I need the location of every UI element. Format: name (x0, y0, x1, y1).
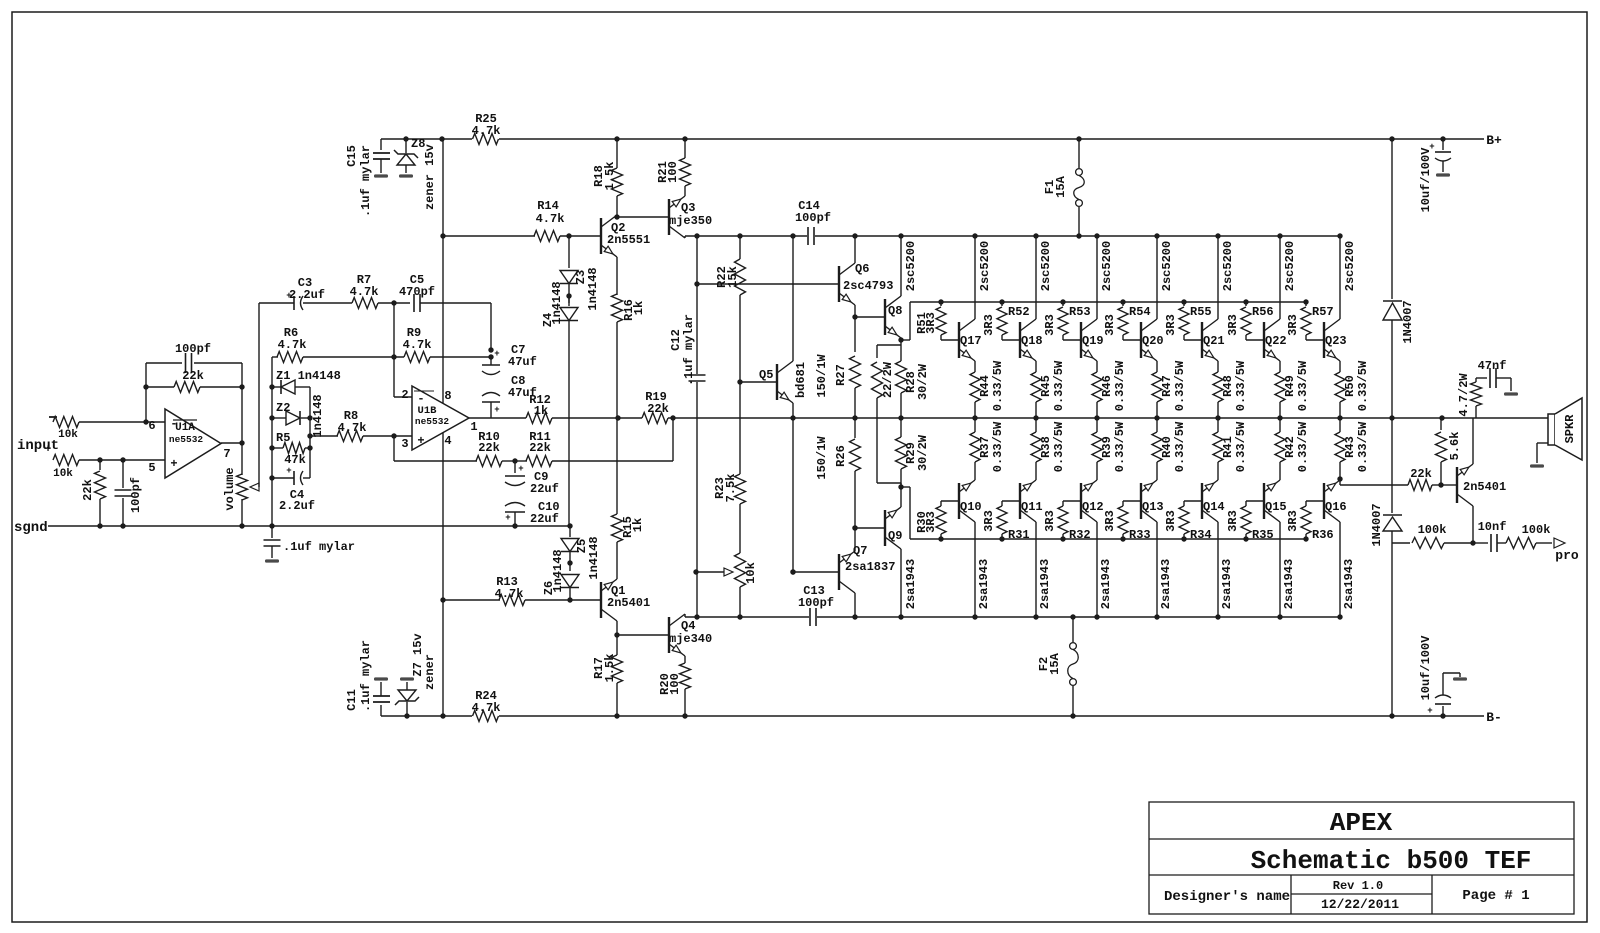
wire Q8 emitter to base rail (901, 339, 910, 341)
svg-text:3R3: 3R3 (1226, 510, 1240, 532)
wire Q6 collector (854, 236, 856, 263)
svg-text:.1uf mylar: .1uf mylar (359, 145, 373, 217)
diode Z3 1n4148 (560, 271, 578, 284)
resistor R7 (352, 298, 378, 309)
wire base rail top (910, 301, 1306, 303)
svg-text:R46: R46 (1100, 375, 1114, 397)
svg-text:R53: R53 (1069, 305, 1091, 319)
svg-text:volume: volume (223, 467, 237, 510)
svg-text:1n4148: 1n4148 (311, 394, 325, 437)
svg-text:-: - (417, 392, 424, 406)
svg-text:2.2uf: 2.2uf (289, 288, 325, 302)
wire supply column U1B pin4 (442, 433, 444, 716)
svg-text:+: + (286, 466, 291, 476)
resistor R9 (404, 352, 430, 363)
resistor R27 150/1W (854, 317, 856, 352)
svg-text:1k: 1k (631, 518, 645, 532)
svg-text:2sc5200: 2sc5200 (1160, 241, 1174, 291)
svg-text:.1uf mylar: .1uf mylar (359, 640, 373, 712)
diode Z5 1n4148 (569, 526, 571, 537)
svg-text:Q10: Q10 (960, 500, 982, 514)
svg-text:1k: 1k (534, 404, 548, 418)
svg-text:15v: 15v (423, 144, 437, 166)
svg-text:47k: 47k (284, 453, 306, 467)
svg-text:Z2: Z2 (276, 401, 290, 415)
svg-text:3R3: 3R3 (1043, 314, 1057, 336)
capacitor .1uf mylar sgnd (271, 526, 273, 538)
wire driver/collector rail top (685, 235, 807, 237)
svg-text:R14: R14 (537, 199, 559, 213)
svg-text:22/2W: 22/2W (881, 361, 895, 398)
svg-text:Q18: Q18 (1021, 334, 1043, 348)
svg-text:0.33/5W: 0.33/5W (1356, 360, 1370, 411)
svg-text:2.2uf: 2.2uf (279, 499, 315, 513)
svg-text:Q23: Q23 (1325, 334, 1347, 348)
resistor R5 47k (269, 445, 274, 450)
svg-text:2sa1943: 2sa1943 (1220, 559, 1234, 609)
svg-text:B+: B+ (1486, 133, 1502, 148)
svg-text:2sa1943: 2sa1943 (1342, 559, 1356, 609)
svg-text:R52: R52 (1008, 305, 1030, 319)
resistor 10k minus input (49, 416, 57, 418)
capacitor C14 100pf (807, 227, 809, 245)
svg-text:R38: R38 (1039, 436, 1053, 458)
resistor R40 0.33/5W (1156, 418, 1158, 432)
capacitor 10uf/100V bottom (1440, 713, 1445, 718)
resistor R31 3R3 (1002, 500, 1020, 502)
resistor 5.6k (1439, 415, 1444, 420)
resistor R30 3R3 (941, 500, 959, 502)
svg-text:R36: R36 (1312, 528, 1334, 542)
zener Z7 (404, 713, 409, 718)
svg-text:R50: R50 (1343, 375, 1357, 397)
svg-text:Z1 1n4148: Z1 1n4148 (276, 369, 341, 383)
svg-text:+: + (494, 349, 499, 359)
svg-text:0.33/5W: 0.33/5W (1052, 421, 1066, 472)
wire Q2 collector (616, 215, 618, 217)
svg-text:1n4148: 1n4148 (551, 549, 565, 592)
svg-text:0.33/5W: 0.33/5W (1356, 421, 1370, 472)
svg-text:C12: C12 (669, 329, 683, 351)
svg-text:R31: R31 (1008, 528, 1030, 542)
svg-text:SPKR: SPKR (1563, 414, 1577, 444)
resistor R19 22k (615, 415, 620, 420)
svg-text:100: 100 (666, 161, 680, 183)
svg-text:10uf/100V: 10uf/100V (1419, 635, 1433, 701)
svg-text:22k: 22k (1410, 467, 1432, 481)
transistor Q12 2sa1943 (1080, 483, 1082, 519)
svg-text:3R3: 3R3 (1164, 510, 1178, 532)
wire R8 tap (307, 433, 312, 438)
svg-text:15A: 15A (1054, 175, 1068, 197)
svg-text:7: 7 (223, 447, 230, 461)
svg-text:0.33/5W: 0.33/5W (991, 360, 1005, 411)
svg-text:Q19: Q19 (1082, 334, 1104, 348)
resistor R13 4.7k (443, 599, 500, 601)
svg-text:2n5401: 2n5401 (607, 596, 650, 610)
wire collector column Q14 (1217, 522, 1219, 617)
resistor R45 0.33/5W (1035, 361, 1037, 372)
svg-text:R27: R27 (834, 364, 848, 386)
wire collector column Q11 (1035, 522, 1037, 617)
svg-text:6: 6 (148, 419, 155, 433)
transistor Q4 mje340 (668, 617, 670, 653)
wire Q6 emitter to R27 (854, 305, 856, 317)
svg-text:22uf: 22uf (530, 482, 559, 496)
svg-text:input: input (17, 438, 59, 454)
svg-text:2: 2 (401, 388, 408, 402)
svg-text:3R3: 3R3 (924, 511, 938, 533)
resistor R12 1k (526, 413, 552, 424)
svg-text:15k: 15k (726, 266, 740, 288)
wiper 10k pot (693, 569, 698, 574)
wire collector column Q10 (974, 522, 976, 617)
svg-text:+: + (45, 444, 52, 456)
wire Q7 collector (854, 593, 856, 617)
svg-text:R41: R41 (1221, 436, 1235, 458)
svg-text:0.33/5W: 0.33/5W (1296, 421, 1310, 472)
transistor Q6 2sc4793 (838, 266, 840, 302)
transistor Q2 2n5551 (600, 218, 602, 254)
transistor Q9 (852, 525, 857, 530)
resistor R50 0.33/5W (1339, 361, 1341, 372)
capacitor C11 (380, 705, 382, 716)
svg-text:Q22: Q22 (1265, 334, 1287, 348)
diode Z4 1n4148 (568, 296, 570, 306)
resistor R18 1.5k (616, 139, 618, 168)
wire B- rail (381, 715, 472, 717)
svg-text:R47: R47 (1160, 375, 1174, 397)
svg-text:.1uf mylar: .1uf mylar (682, 314, 696, 386)
svg-text:2sa1943: 2sa1943 (1159, 559, 1173, 609)
wire collector column Q22 (1277, 233, 1282, 238)
resistor R16 1k (616, 257, 618, 295)
svg-text:zener: zener (423, 174, 437, 210)
svg-text:1n4148: 1n4148 (550, 281, 564, 324)
svg-text:100pf: 100pf (175, 342, 211, 356)
svg-text:ne5532: ne5532 (169, 434, 204, 445)
svg-text:22k: 22k (81, 479, 95, 501)
svg-text:2sc5200: 2sc5200 (978, 241, 992, 291)
diode 1N4007 top (1383, 300, 1402, 302)
svg-text:+: + (1427, 706, 1432, 716)
wire collector column Q19 (1094, 233, 1099, 238)
svg-text:5: 5 (148, 461, 155, 475)
svg-text:2sa1943: 2sa1943 (1099, 559, 1113, 609)
diode Z2 1n4148 (269, 415, 274, 420)
resistor R41 0.33/5W (1217, 418, 1219, 432)
fuse F1 15A (1076, 136, 1081, 141)
svg-text:+: + (417, 434, 424, 448)
svg-text:22uf: 22uf (530, 512, 559, 526)
svg-text:Q16: Q16 (1325, 500, 1347, 514)
resistor R21 100 (682, 136, 687, 141)
wire B+ rail (381, 138, 472, 140)
svg-text:4.7k: 4.7k (472, 124, 501, 138)
svg-text:470pf: 470pf (399, 285, 435, 299)
svg-text:R55: R55 (1190, 305, 1212, 319)
transistor Q16 2sa1943 (1323, 483, 1325, 519)
svg-text:+: + (518, 464, 523, 474)
svg-text:10k: 10k (53, 468, 73, 480)
capacitor C10 22uf (505, 503, 525, 507)
svg-text:4.7k: 4.7k (403, 338, 432, 352)
resistor R24 (473, 711, 499, 722)
resistor R47 0.33/5W (1156, 361, 1158, 372)
svg-text:mje340: mje340 (669, 632, 712, 646)
svg-text:R26: R26 (834, 445, 848, 467)
resistor R39 0.33/5W (1096, 418, 1098, 432)
svg-text:0.33/5W: 0.33/5W (1234, 421, 1248, 472)
transistor Q23 2sc5200 (1323, 322, 1325, 358)
wire current sense tap (1337, 476, 1342, 481)
diode Z1 1n4148 (269, 384, 274, 389)
svg-text:30/2W: 30/2W (916, 363, 930, 400)
wire Z cluster right (309, 387, 311, 478)
svg-text:4.7k: 4.7k (536, 212, 565, 226)
resistor R57 3R3 (1303, 299, 1308, 304)
svg-text:Q9: Q9 (888, 529, 902, 543)
svg-text:47uf: 47uf (508, 355, 537, 369)
transistor Q14 2sa1943 (1201, 483, 1203, 519)
svg-text:10k: 10k (744, 562, 758, 584)
svg-text:4.7k: 4.7k (338, 421, 367, 435)
wire Q5 collector (792, 236, 794, 361)
wire collector column Q12 (1096, 522, 1098, 617)
wire Q1 collector (616, 621, 618, 635)
resistor R56 3R3 (1243, 299, 1248, 304)
resistor R38 0.33/5W (1035, 418, 1037, 432)
capacitor C5 (413, 294, 415, 312)
resistor 100k right (1506, 538, 1536, 549)
svg-text:4.7k: 4.7k (350, 285, 379, 299)
svg-text:2sa1837: 2sa1837 (845, 560, 895, 574)
svg-text:8: 8 (444, 389, 451, 403)
svg-text:R49: R49 (1283, 375, 1297, 397)
svg-text:Q12: Q12 (1082, 500, 1104, 514)
svg-text:R33: R33 (1129, 528, 1151, 542)
svg-text:2sc4793: 2sc4793 (843, 279, 893, 293)
svg-text:Q11: Q11 (1021, 500, 1043, 514)
svg-text:1: 1 (470, 420, 477, 434)
svg-text:1n4148: 1n4148 (587, 536, 601, 579)
svg-text:R48: R48 (1221, 375, 1235, 397)
wire Z3 Z4 column (566, 233, 571, 238)
wire Q8 emitter node (900, 338, 902, 345)
resistor R36 3R3 (1306, 500, 1324, 502)
svg-text:4: 4 (444, 434, 451, 448)
resistor R33 3R3 (1123, 500, 1141, 502)
wire supply column U1B pin8 (439, 136, 444, 141)
wire collector column Q18 (1033, 233, 1038, 238)
svg-text:7.5k: 7.5k (724, 474, 738, 503)
zener Z8 (403, 136, 408, 141)
svg-text:2sa1943: 2sa1943 (977, 559, 991, 609)
wire Q8 collector column (900, 236, 902, 296)
resistor 22/2W bridge (877, 344, 901, 346)
wire Q7 emitter (854, 528, 856, 551)
op-amp U1A (165, 409, 221, 478)
wire Q5 column lower (792, 418, 794, 572)
capacitor 100pf feedback U1A (146, 362, 182, 364)
resistor R48 0.33/5W (1217, 361, 1219, 372)
svg-text:Q5: Q5 (759, 368, 773, 382)
svg-text:sgnd: sgnd (14, 520, 48, 536)
resistor R25 (473, 134, 499, 145)
wire protection emitter (1472, 418, 1474, 464)
resistor R53 3R3 (1060, 299, 1065, 304)
resistor R20 100 (684, 656, 686, 663)
svg-text:Q21: Q21 (1203, 334, 1225, 348)
svg-text:R35: R35 (1252, 528, 1274, 542)
svg-text:R42: R42 (1283, 436, 1297, 458)
resistor R55 3R3 (1181, 299, 1186, 304)
svg-text:R5: R5 (276, 431, 290, 445)
resistor R34 3R3 (1184, 500, 1202, 502)
transistor Q19 2sc5200 (1080, 322, 1082, 358)
svg-text:2n5401: 2n5401 (1463, 480, 1506, 494)
wire U1A feedback right (241, 363, 243, 387)
resistor R11 22k (512, 458, 517, 463)
svg-text:Schematic b500 TEF: Schematic b500 TEF (1251, 846, 1532, 876)
svg-text:3R3: 3R3 (924, 312, 938, 334)
svg-text:22k: 22k (647, 402, 669, 416)
wire collector column Q16 (1339, 522, 1341, 617)
svg-text:100k: 100k (1522, 523, 1551, 537)
svg-text:R57: R57 (1312, 305, 1334, 319)
wiper volume (250, 483, 259, 491)
svg-text:1N4007: 1N4007 (1370, 503, 1384, 546)
svg-text:10nf: 10nf (1478, 520, 1507, 534)
svg-text:Page # 1: Page # 1 (1462, 888, 1529, 904)
svg-text:3R3: 3R3 (1286, 314, 1300, 336)
svg-text:1N4007: 1N4007 (1401, 300, 1415, 343)
svg-text:.1uf mylar: .1uf mylar (283, 540, 355, 554)
svg-text:Q3: Q3 (681, 201, 695, 215)
wire C12 column (694, 233, 699, 238)
svg-text:2sc5200: 2sc5200 (1039, 241, 1053, 291)
svg-text:C11: C11 (345, 689, 359, 711)
svg-text:12/22/2011: 12/22/2011 (1321, 897, 1399, 912)
resistor R15 1k (616, 542, 618, 579)
wire diode column (1389, 136, 1394, 141)
svg-text:0.33/5W: 0.33/5W (1173, 421, 1187, 472)
svg-text:2sc5200: 2sc5200 (1343, 241, 1357, 291)
svg-text:R43: R43 (1343, 436, 1357, 458)
svg-text:3R3: 3R3 (982, 510, 996, 532)
svg-text:3R3: 3R3 (1103, 510, 1117, 532)
resistor R22 15k (737, 233, 742, 238)
svg-text:pro: pro (1555, 548, 1579, 563)
svg-text:0.33/5W: 0.33/5W (1173, 360, 1187, 411)
capacitor C15 (380, 139, 382, 150)
transistor Q17 2sc5200 (958, 322, 960, 358)
svg-text:+: + (505, 513, 510, 523)
svg-text:1.5k: 1.5k (603, 162, 617, 191)
svg-text:1k: 1k (632, 301, 646, 315)
svg-text:3: 3 (401, 437, 408, 451)
svg-text:Designer's name: Designer's name (1164, 889, 1290, 905)
svg-text:10k: 10k (58, 429, 78, 441)
svg-text:3R3: 3R3 (1103, 314, 1117, 336)
transistor Q22 2sc5200 (1263, 322, 1265, 358)
svg-text:4.7/2W: 4.7/2W (1457, 373, 1471, 417)
svg-text:4.7k: 4.7k (278, 338, 307, 352)
svg-text:bd681: bd681 (794, 362, 808, 398)
svg-text:Q8: Q8 (888, 304, 902, 318)
svg-text:R44: R44 (978, 375, 992, 397)
svg-text:zener: zener (423, 654, 437, 690)
transistor Q21 2sc5200 (1201, 322, 1203, 358)
svg-text:47nf: 47nf (1478, 359, 1507, 373)
svg-text:0.33/5W: 0.33/5W (1113, 360, 1127, 411)
wire main output bus (469, 417, 526, 419)
transistor Q13 2sa1943 (1140, 483, 1142, 519)
svg-text:1.5k: 1.5k (603, 654, 617, 683)
resistor R28 30/2W (896, 361, 907, 393)
resistor R29 30/2W (900, 418, 902, 437)
svg-text:R32: R32 (1069, 528, 1091, 542)
svg-text:R45: R45 (1039, 375, 1053, 397)
capacitor C9 22uf (514, 461, 516, 473)
wire Q9 emitter to base rail (901, 486, 910, 488)
svg-text:4.7k: 4.7k (495, 587, 524, 601)
wire R10 branch (393, 436, 395, 461)
svg-text:150/1W: 150/1W (815, 436, 829, 480)
svg-text:22k: 22k (182, 369, 204, 383)
diode 1N4007 bottom (1391, 418, 1393, 513)
resistor R43 0.33/5W (1339, 418, 1341, 432)
wire speaker return (1537, 442, 1548, 444)
wire C5 to C7 node (490, 303, 492, 350)
svg-text:Q17: Q17 (960, 334, 982, 348)
potentiometer 10k (735, 553, 746, 587)
svg-text:+: + (494, 405, 499, 415)
capacitor 100pf input (120, 457, 125, 462)
svg-text:0.33/5W: 0.33/5W (1052, 360, 1066, 411)
svg-text:5.6k: 5.6k (1448, 432, 1462, 461)
transistor Q8 (855, 316, 885, 318)
svg-text:2sc5200: 2sc5200 (1283, 241, 1297, 291)
wire U1A feedback left (145, 363, 147, 422)
wire collector column Q21 (1215, 233, 1220, 238)
resistor R14 4.7k (440, 233, 445, 238)
resistor 22k feedback U1A (146, 386, 174, 388)
svg-text:Q4: Q4 (681, 619, 695, 633)
svg-text:100: 100 (668, 673, 682, 695)
svg-text:-: - (170, 417, 177, 431)
wire collector column Q23 (1337, 233, 1342, 238)
resistor R35 3R3 (1246, 500, 1264, 502)
resistor R54 3R3 (1120, 299, 1125, 304)
svg-text:APEX: APEX (1330, 808, 1393, 838)
transistor Q18 2sc5200 (1019, 322, 1021, 358)
svg-text:Q20: Q20 (1142, 334, 1164, 348)
wire Q9 emitter node (900, 483, 902, 507)
svg-text:3R3: 3R3 (1043, 510, 1057, 532)
transistor Q20 2sc5200 (1140, 322, 1142, 358)
svg-text:R34: R34 (1190, 528, 1212, 542)
transistor Q1 2n5401 (600, 582, 602, 618)
svg-text:+: + (170, 457, 177, 471)
svg-text:R56: R56 (1252, 305, 1274, 319)
svg-text:15A: 15A (1048, 652, 1062, 674)
wire Q6 base tap (694, 281, 699, 286)
resistor R49 0.33/5W (1279, 361, 1281, 372)
speaker SPKR (1548, 414, 1555, 445)
svg-text:R39: R39 (1100, 436, 1114, 458)
resistor 22k protection (1408, 480, 1432, 491)
